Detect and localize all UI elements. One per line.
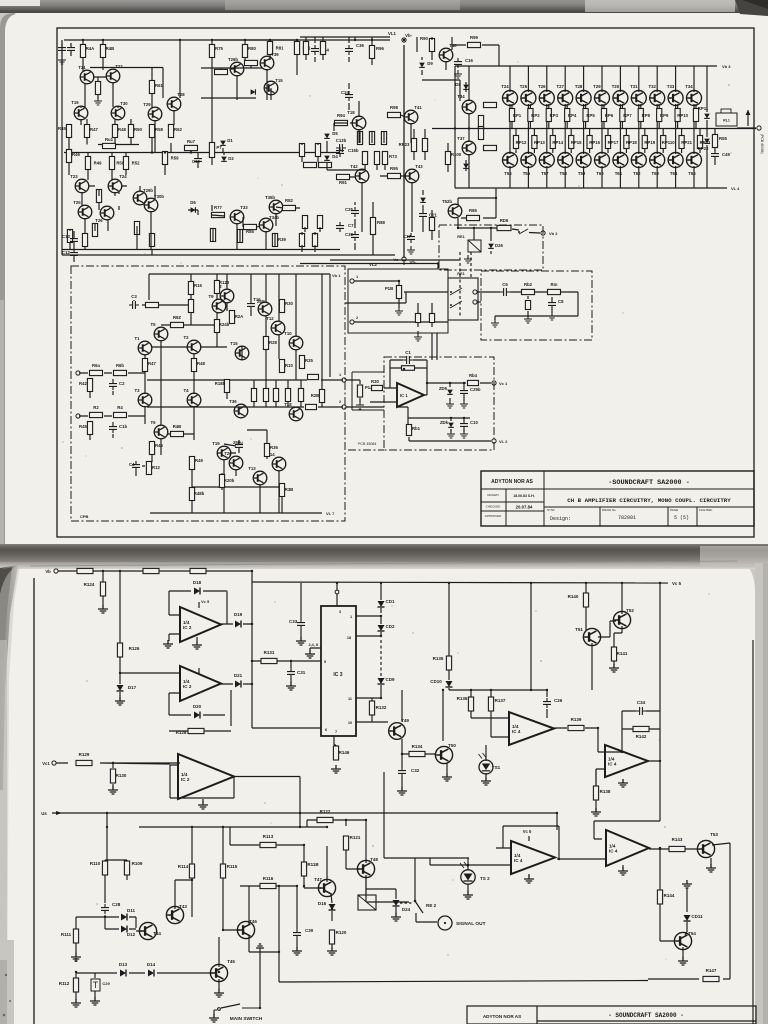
junction bbox=[437, 262, 439, 264]
junction bbox=[442, 689, 444, 691]
svg-text:5: 5 bbox=[324, 660, 326, 664]
transistor T51 bbox=[575, 627, 600, 646]
transistor T4 bbox=[183, 388, 200, 407]
resistor RP9 bbox=[657, 109, 669, 122]
svg-text:C25: C25 bbox=[345, 207, 353, 212]
svg-text:T18: T18 bbox=[284, 402, 292, 407]
input connector box bbox=[348, 269, 448, 333]
svg-text:VL 7: VL 7 bbox=[326, 511, 335, 516]
svg-text:R121: R121 bbox=[350, 835, 361, 840]
diode CD11 bbox=[684, 914, 704, 921]
transistor T53 bbox=[697, 832, 718, 858]
svg-text:C4: C4 bbox=[129, 462, 135, 467]
relay RE2 coil bbox=[358, 895, 376, 910]
resistor bbox=[312, 234, 317, 247]
resistor R88 bbox=[370, 218, 385, 235]
junction bbox=[401, 753, 403, 755]
svg-text:T23: T23 bbox=[70, 174, 78, 179]
resistor R73 bbox=[382, 152, 397, 165]
resistor R136 bbox=[457, 696, 474, 711]
resistor bbox=[411, 139, 416, 152]
svg-text:C10: C10 bbox=[470, 420, 478, 425]
junction bbox=[380, 635, 382, 637]
junction bbox=[449, 382, 451, 384]
junction bbox=[403, 262, 405, 264]
svg-text:R2: R2 bbox=[93, 405, 99, 410]
svg-text:Vb 1: Vb 1 bbox=[332, 273, 341, 278]
svg-text:R114: R114 bbox=[178, 864, 189, 869]
ground bbox=[305, 650, 315, 658]
junction bbox=[336, 582, 338, 584]
wire: T47 D16 R120 bbox=[327, 846, 332, 948]
transistor T35b bbox=[265, 195, 283, 214]
resistor R143 bbox=[669, 837, 685, 852]
junction bbox=[278, 951, 280, 953]
resistor R85 bbox=[467, 208, 480, 221]
diode CD9 bbox=[378, 677, 395, 684]
svg-text:R139: R139 bbox=[571, 717, 582, 722]
resistor RP2 bbox=[528, 109, 540, 122]
resistor R45 bbox=[79, 422, 93, 435]
terminal bbox=[54, 569, 58, 573]
transistor T29 bbox=[143, 102, 162, 121]
svg-text:T30: T30 bbox=[612, 84, 620, 89]
ground bbox=[414, 333, 422, 341]
svg-text:R113: R113 bbox=[263, 834, 274, 839]
resistor R137 bbox=[488, 697, 505, 711]
terminal Vb- bbox=[402, 33, 413, 42]
junction bbox=[470, 689, 472, 691]
svg-text:DRAW No: DRAW No bbox=[602, 508, 616, 512]
transistor T47 bbox=[314, 877, 335, 897]
svg-text:R80: R80 bbox=[248, 46, 256, 51]
svg-text:T50: T50 bbox=[448, 743, 456, 748]
resistor bbox=[146, 302, 159, 307]
capacitor C6 bbox=[500, 282, 510, 296]
transistor T36 bbox=[229, 399, 248, 418]
resistor R139 bbox=[568, 717, 584, 731]
transistor T24 bbox=[108, 174, 127, 193]
svg-text:Design:: Design: bbox=[550, 516, 571, 522]
junction bbox=[401, 753, 403, 755]
resistor bbox=[362, 152, 367, 165]
transistor T15 bbox=[230, 341, 249, 360]
resistor bbox=[263, 389, 268, 402]
svg-text:R52: R52 bbox=[132, 161, 140, 166]
resistor bbox=[299, 144, 304, 157]
junction bbox=[659, 848, 661, 850]
junction bbox=[190, 151, 192, 153]
wire: relay link dashed bbox=[470, 252, 472, 278]
resistor bbox=[319, 162, 332, 167]
resistor R62 bbox=[168, 125, 182, 138]
resistor R122 bbox=[317, 809, 333, 823]
junction bbox=[659, 582, 661, 584]
svg-text:R36: R36 bbox=[270, 445, 278, 450]
resistor bbox=[67, 230, 72, 243]
terminal bbox=[52, 761, 56, 765]
diode D4 bbox=[324, 154, 338, 160]
wire: region C verticals bbox=[455, 66, 497, 188]
diode D8 bbox=[455, 82, 469, 89]
svg-text:R48: R48 bbox=[197, 361, 205, 366]
svg-text:T44: T44 bbox=[153, 931, 161, 936]
svg-text:Vc -: Vc - bbox=[393, 257, 401, 262]
svg-text:RP21: RP21 bbox=[681, 140, 692, 145]
wire: array bottom rail VL4 bbox=[455, 187, 727, 189]
junction bbox=[179, 39, 181, 41]
svg-text:T43: T43 bbox=[179, 904, 187, 909]
terminal bbox=[76, 414, 80, 418]
wire: array column 2 bbox=[528, 66, 534, 188]
transistor T34 bbox=[685, 84, 701, 106]
ground bbox=[524, 315, 532, 323]
capacitor C24 bbox=[341, 90, 353, 101]
svg-text:T63: T63 bbox=[651, 171, 659, 176]
svg-text:C29: C29 bbox=[102, 981, 110, 986]
svg-text:RP17: RP17 bbox=[608, 140, 619, 145]
svg-text:T28: T28 bbox=[575, 84, 583, 89]
svg-text:CPB: CPB bbox=[80, 514, 89, 519]
resistor R111 bbox=[61, 929, 79, 943]
svg-text:R91: R91 bbox=[339, 180, 347, 185]
transistor T6 bbox=[150, 420, 167, 439]
resistor R30 bbox=[371, 379, 382, 391]
diode RP11 bbox=[698, 106, 710, 118]
svg-text:R100: R100 bbox=[451, 152, 462, 157]
svg-text:R30: R30 bbox=[371, 379, 379, 384]
svg-text:Rb2: Rb2 bbox=[524, 282, 533, 287]
svg-text:ZD5: ZD5 bbox=[439, 386, 448, 391]
diode RP22 bbox=[698, 139, 710, 151]
junction bbox=[331, 908, 333, 910]
svg-text:T31: T31 bbox=[630, 84, 638, 89]
junction bbox=[164, 151, 166, 153]
svg-text:R2B: R2B bbox=[311, 393, 320, 398]
svg-text:R131: R131 bbox=[264, 650, 275, 655]
svg-text:R48b: R48b bbox=[194, 491, 205, 496]
junction bbox=[457, 227, 459, 229]
diode D14 bbox=[147, 962, 156, 977]
transistor T19 bbox=[71, 100, 88, 120]
svg-text:T47: T47 bbox=[314, 877, 322, 882]
svg-text:R4: R4 bbox=[117, 405, 123, 410]
resistor R90 bbox=[420, 36, 435, 52]
wire: IC4d out bbox=[623, 843, 730, 979]
svg-text:R49: R49 bbox=[195, 458, 203, 463]
svg-text:C15b: C15b bbox=[348, 148, 359, 153]
ground bbox=[678, 957, 688, 965]
svg-text:-SOUNDCRAFT SA2000 -: -SOUNDCRAFT SA2000 - bbox=[608, 479, 690, 487]
resistor bbox=[374, 152, 379, 165]
svg-text:C30: C30 bbox=[305, 928, 314, 933]
svg-text:T36: T36 bbox=[229, 399, 237, 404]
svg-text:RP6: RP6 bbox=[605, 113, 614, 118]
wire: CD dashed bbox=[380, 640, 382, 677]
wire: array column 3 bbox=[547, 66, 553, 188]
capacitor C3 bbox=[129, 294, 139, 309]
svg-text:R134: R134 bbox=[412, 744, 423, 749]
svg-text:T57: T57 bbox=[541, 171, 549, 176]
junction bbox=[278, 885, 280, 887]
svg-text:R140: R140 bbox=[568, 594, 579, 599]
svg-text:T1: T1 bbox=[134, 336, 140, 341]
svg-text:ADYTON NOR AS: ADYTON NOR AS bbox=[491, 479, 533, 485]
svg-text:T58: T58 bbox=[559, 171, 567, 176]
svg-text:T25: T25 bbox=[520, 84, 528, 89]
svg-text:R123: R123 bbox=[219, 280, 230, 285]
diode D2 bbox=[221, 156, 234, 161]
ground bbox=[391, 913, 401, 921]
resistor RP3 bbox=[546, 109, 558, 122]
resistor R47 bbox=[84, 125, 98, 138]
ground bbox=[407, 246, 415, 254]
diode bbox=[251, 89, 256, 95]
resistor P1B bbox=[385, 286, 402, 299]
svg-text:CHECKED: CHECKED bbox=[486, 505, 502, 509]
ground bbox=[94, 97, 102, 105]
transistor bbox=[558, 153, 573, 168]
transistor T20 bbox=[224, 451, 243, 470]
wire: P1A wiring bbox=[346, 380, 384, 407]
resistor bbox=[245, 60, 258, 65]
resistor R55 bbox=[712, 135, 727, 148]
svg-text:5 (5): 5 (5) bbox=[674, 515, 689, 521]
junction bbox=[621, 582, 623, 584]
switch RE2 bbox=[414, 900, 437, 913]
svg-text:SYST.: SYST. bbox=[547, 508, 556, 512]
svg-text:DRAWN: DRAWN bbox=[487, 493, 498, 497]
wire: C34 R142 feedback bbox=[594, 583, 660, 839]
wire: array top rail Vb3 bbox=[455, 65, 717, 67]
diode D6 bbox=[190, 200, 196, 213]
terminal bbox=[757, 126, 761, 130]
transistor T45 bbox=[210, 959, 235, 982]
resistor bbox=[215, 69, 228, 74]
svg-text:R146: R146 bbox=[339, 750, 350, 755]
diode CD2 bbox=[378, 624, 395, 631]
svg-text:R4B: R4B bbox=[173, 424, 182, 429]
terminal pin3 marker bbox=[335, 590, 339, 594]
resistor bbox=[188, 300, 193, 313]
capacitor C12b bbox=[336, 138, 347, 152]
resistor bbox=[320, 42, 325, 55]
resistor R75 bbox=[209, 45, 223, 58]
relay RE1 coil bbox=[457, 235, 481, 252]
svg-text:T24: T24 bbox=[119, 174, 127, 179]
svg-text:T48: T48 bbox=[370, 857, 378, 862]
diode bbox=[420, 198, 426, 203]
svg-text:RP10: RP10 bbox=[677, 113, 688, 118]
junction bbox=[354, 39, 356, 41]
wire: R122 R121 row bbox=[307, 820, 409, 902]
junction bbox=[403, 368, 405, 370]
svg-text:T34b: T34b bbox=[269, 215, 279, 220]
arrow marker bbox=[746, 110, 751, 115]
svg-text:T19: T19 bbox=[212, 441, 220, 446]
wire: region E loop bbox=[458, 188, 540, 259]
capacitor C44 bbox=[311, 45, 329, 55]
wire: F bottom rail bbox=[150, 512, 322, 514]
diode CD1 bbox=[378, 599, 395, 607]
junction bbox=[251, 660, 253, 662]
svg-text:R12: R12 bbox=[152, 465, 160, 470]
resistor R11B bbox=[301, 862, 319, 876]
svg-text:C34: C34 bbox=[637, 700, 646, 705]
resistor R30 bbox=[279, 300, 293, 313]
ground bbox=[460, 430, 468, 438]
transistor bbox=[650, 153, 665, 168]
resistor R109 bbox=[124, 861, 142, 875]
junction bbox=[251, 570, 253, 572]
svg-text:T62: T62 bbox=[633, 171, 641, 176]
svg-text:T19: T19 bbox=[71, 100, 79, 105]
svg-text:T27: T27 bbox=[556, 84, 564, 89]
svg-text:R24b: R24b bbox=[219, 322, 230, 327]
ground bbox=[454, 70, 462, 78]
ground bbox=[491, 319, 499, 327]
ground bbox=[591, 808, 601, 816]
resistor bbox=[134, 222, 139, 235]
svg-text:T59: T59 bbox=[578, 171, 586, 176]
svg-text:C24: C24 bbox=[341, 90, 349, 95]
svg-text:D26: D26 bbox=[495, 243, 503, 248]
transistor T41 bbox=[404, 105, 422, 124]
svg-text:Ru7: Ru7 bbox=[187, 139, 196, 144]
svg-text:IC 3: IC 3 bbox=[333, 672, 342, 678]
junction bbox=[303, 844, 305, 846]
svg-text:T6: T6 bbox=[150, 420, 156, 425]
junction bbox=[112, 762, 114, 764]
terminal bbox=[342, 378, 346, 382]
resistor R6b bbox=[114, 363, 127, 376]
svg-text:D9: D9 bbox=[427, 61, 433, 66]
svg-text:T41: T41 bbox=[414, 105, 422, 110]
svg-text:T52b: T52b bbox=[442, 199, 452, 204]
svg-text:RP14: RP14 bbox=[552, 140, 563, 145]
svg-text:R136: R136 bbox=[457, 696, 468, 701]
svg-text:6: 6 bbox=[325, 728, 327, 732]
svg-text:2,4, 8: 2,4, 8 bbox=[309, 643, 319, 647]
resistor R94 bbox=[335, 113, 348, 126]
svg-text:MAIN SWITCH: MAIN SWITCH bbox=[230, 1016, 263, 1022]
resistor RP10 bbox=[675, 109, 689, 122]
transistor bbox=[521, 153, 536, 168]
resistor R2B bbox=[311, 390, 325, 403]
svg-text:250u: 250u bbox=[257, 299, 267, 304]
resistor bbox=[304, 162, 317, 167]
op-amp IC 2 bbox=[180, 666, 221, 701]
resistor R2 bbox=[90, 405, 103, 418]
svg-text:SIGNAL OUT: SIGNAL OUT bbox=[456, 921, 486, 927]
transistor T25 bbox=[520, 84, 536, 106]
svg-text:RP3: RP3 bbox=[550, 113, 559, 118]
svg-text:T9: T9 bbox=[208, 294, 214, 299]
transistor T28 bbox=[167, 92, 185, 111]
transistor T42 bbox=[350, 164, 369, 183]
junction bbox=[290, 660, 292, 662]
transistor T1 bbox=[134, 336, 151, 355]
page 2 right border bbox=[752, 640, 754, 1024]
svg-text:Vb 2: Vb 2 bbox=[549, 231, 558, 236]
svg-text:Vc 5: Vc 5 bbox=[523, 829, 532, 834]
diode D18 bbox=[193, 580, 202, 595]
wire: lower left diodes bbox=[76, 875, 192, 1000]
resistor R123 bbox=[214, 280, 229, 294]
ground bbox=[463, 891, 473, 899]
svg-text:RP4: RP4 bbox=[568, 113, 577, 118]
junction bbox=[218, 971, 220, 973]
wire: C30 bbox=[296, 886, 298, 948]
transistor T24 bbox=[501, 84, 517, 106]
resistor Rb2 bbox=[522, 282, 535, 295]
diode D1 bbox=[220, 138, 233, 145]
wire: RE2 dashed link bbox=[400, 902, 412, 904]
svg-text:T26: T26 bbox=[95, 218, 103, 223]
svg-text:R130: R130 bbox=[116, 773, 127, 778]
svg-text:IC 1: IC 1 bbox=[400, 393, 408, 398]
capacitor C38 bbox=[345, 231, 359, 241]
resistor bbox=[422, 139, 427, 152]
svg-text:D11: D11 bbox=[127, 908, 136, 913]
resistor bbox=[402, 366, 415, 371]
junction bbox=[299, 826, 301, 828]
svg-text:3: 3 bbox=[339, 610, 341, 614]
svg-text:R109: R109 bbox=[132, 861, 143, 866]
svg-text:(PCB 45086): (PCB 45086) bbox=[760, 134, 764, 154]
resistor R98 bbox=[388, 105, 401, 118]
ground bbox=[481, 777, 491, 785]
ground bbox=[292, 947, 302, 955]
svg-text:T29: T29 bbox=[593, 84, 601, 89]
resistor R59 bbox=[162, 152, 179, 165]
junction bbox=[112, 762, 114, 764]
svg-text:R122: R122 bbox=[320, 809, 331, 814]
svg-text:C6: C6 bbox=[502, 282, 508, 287]
transistor T26 bbox=[538, 84, 554, 106]
transistor T43 bbox=[166, 904, 187, 924]
svg-text:R138: R138 bbox=[600, 789, 611, 794]
transistor T40 bbox=[439, 43, 457, 62]
svg-text:VL2: VL2 bbox=[369, 262, 377, 267]
diode D13 bbox=[119, 962, 128, 977]
resistor R80 bbox=[242, 45, 256, 58]
transistor T37 bbox=[457, 136, 476, 155]
wire: array column 9 bbox=[657, 66, 663, 188]
svg-text:IC 4: IC 4 bbox=[608, 762, 617, 767]
svg-text:Rm: Rm bbox=[551, 282, 558, 287]
diode D16 bbox=[318, 901, 336, 910]
op-amp IC 4 bbox=[606, 830, 649, 866]
LED TS1 bbox=[479, 753, 501, 774]
ground bbox=[356, 401, 364, 409]
svg-text:R6b: R6b bbox=[116, 363, 124, 368]
svg-text:T60: T60 bbox=[596, 171, 604, 176]
svg-text:T15: T15 bbox=[230, 341, 238, 346]
junction bbox=[454, 127, 456, 129]
svg-text:RE 2: RE 2 bbox=[426, 903, 437, 908]
svg-text:C38: C38 bbox=[345, 232, 353, 237]
wire: CD chain bbox=[380, 583, 382, 698]
svg-text:R3B: R3B bbox=[285, 487, 294, 492]
svg-text:Vb-: Vb- bbox=[410, 260, 417, 265]
board outline upper (dash-dot) bbox=[481, 271, 592, 340]
resistor R96 bbox=[369, 46, 384, 59]
diode ZDk bbox=[440, 420, 454, 427]
capacitor 250u bbox=[233, 440, 243, 451]
svg-text:CD9: CD9 bbox=[385, 677, 394, 682]
svg-text:R112: R112 bbox=[59, 981, 70, 986]
